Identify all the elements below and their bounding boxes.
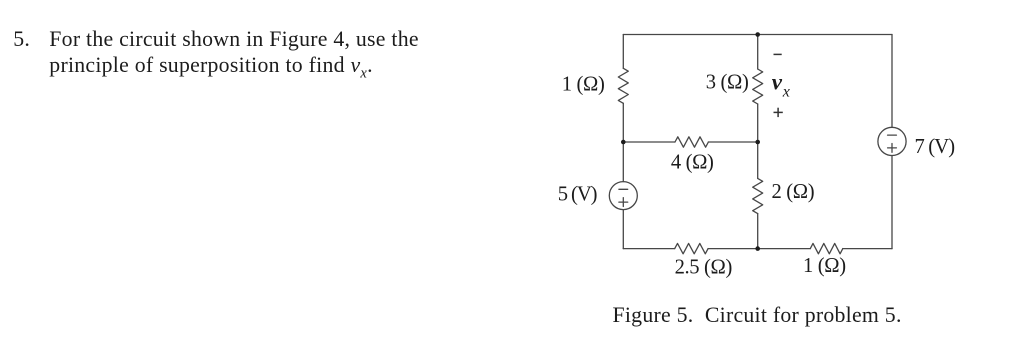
svg-text:3 (Ω): 3 (Ω) (706, 71, 749, 93)
svg-text:1 (Ω): 1 (Ω) (562, 73, 605, 95)
resistor R4 2 (Ω) vertical middle-lower (753, 178, 763, 213)
problem text line 2 (49, 55, 372, 85)
wire middle column below R4 (757, 214, 759, 249)
V1 minus sign (619, 188, 628, 190)
svg-text:4 (Ω): 4 (Ω) (671, 152, 714, 174)
wire right column lower (891, 156, 893, 249)
junction node top (3 Ω top) (755, 32, 760, 37)
svg-text:x: x (782, 84, 790, 101)
wire top: left column to right column (623, 34, 892, 36)
wire middle column between R2 and middle node (757, 104, 759, 142)
figure caption (613, 305, 902, 327)
label vx minus terminal (774, 53, 782, 55)
voltage source V1 5 (V) circle (609, 182, 637, 210)
voltage source V2 7 (V) circle (878, 127, 906, 155)
wire bottom left segment (623, 248, 674, 250)
resistor R3 4 (Ω) horizontal middle (675, 137, 708, 147)
junction node middle-right (755, 140, 760, 145)
junction node middle-left (621, 140, 626, 145)
svg-text:v: v (772, 70, 783, 95)
wire left column below source V1 (622, 210, 624, 249)
problem text line 1 (49, 29, 419, 51)
svg-text:5 (V): 5 (V) (558, 183, 597, 205)
wire middle column upper lead (757, 35, 759, 70)
wire middle horizontal: right lead (708, 141, 757, 143)
resistor R6 1 (Ω) horizontal bottom-right (810, 243, 843, 253)
svg-text:2.5 (Ω): 2.5 (Ω) (675, 257, 732, 279)
V1 plus sign (619, 201, 628, 203)
problem number (13, 29, 30, 51)
wire left column upper lead (622, 35, 624, 69)
wire bottom middle segment (708, 248, 810, 250)
resistor R1 1 (Ω) vertical left (618, 68, 628, 103)
resistor R5 2.5 (Ω) horizontal bottom-left (675, 243, 708, 253)
wire right column upper (891, 35, 893, 128)
wire left column between R1 and source V1 (622, 103, 624, 181)
wire middle horizontal: left node lead (623, 141, 675, 143)
svg-text:1 (Ω): 1 (Ω) (803, 255, 846, 277)
junction node bottom (2 Ω bottom) (755, 246, 760, 251)
wire bottom right segment (843, 248, 892, 250)
V2 plus sign (888, 147, 897, 149)
label vx plus terminal (774, 111, 783, 113)
svg-text:2 (Ω): 2 (Ω) (772, 181, 815, 203)
V2 minus sign (888, 134, 897, 136)
wire middle column between middle node and R4 (757, 142, 759, 178)
svg-text:7 (V): 7 (V) (915, 136, 955, 158)
resistor R2 3 (Ω) vertical middle (753, 69, 763, 104)
